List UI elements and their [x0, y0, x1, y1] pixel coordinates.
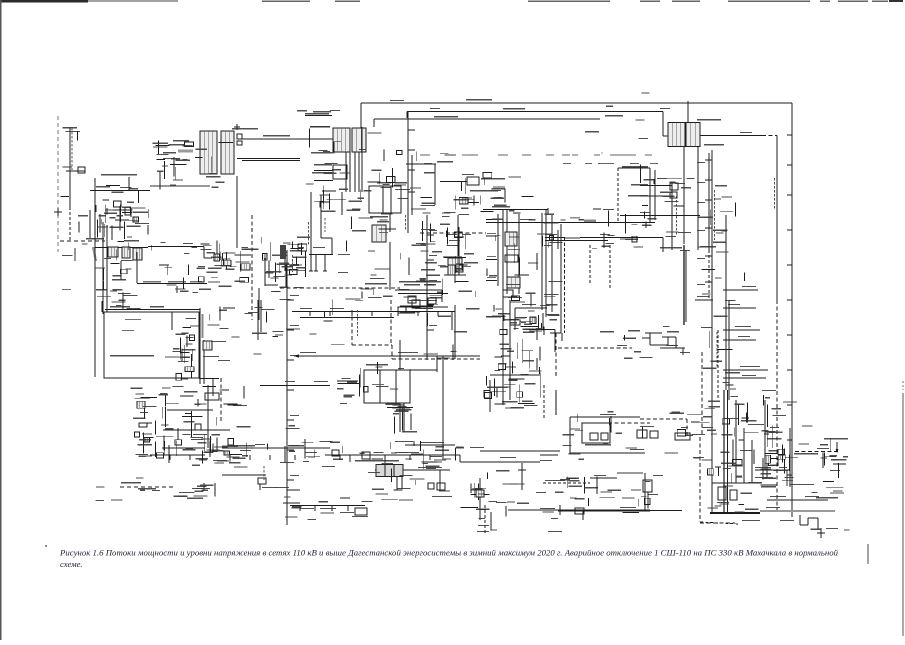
- svg-text:Рисунок 1.6 Потоки мощности и: Рисунок 1.6 Потоки мощности и уровни нап…: [59, 548, 839, 558]
- svg-text:схеме.: схеме.: [60, 559, 83, 569]
